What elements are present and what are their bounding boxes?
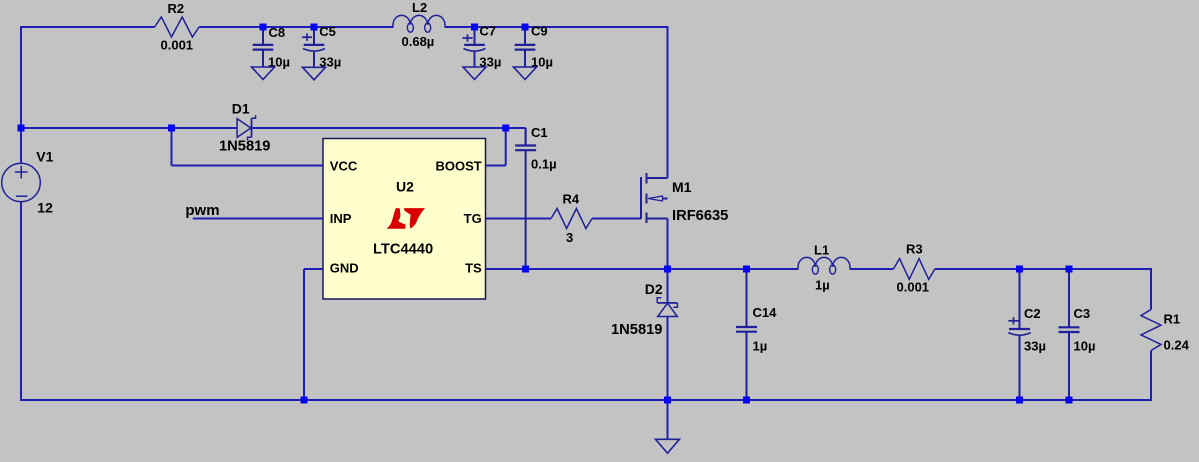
svg-text:0.24: 0.24 — [1164, 338, 1190, 353]
junction left rail x D1 net — [18, 125, 25, 132]
svg-text:1N5819: 1N5819 — [219, 139, 270, 155]
svg-text:C7: C7 — [479, 24, 496, 39]
junction D2 bottom — [664, 397, 671, 404]
capacitor C14 — [736, 269, 757, 400]
svg-text:1µ: 1µ — [753, 338, 768, 353]
voltage source V1 — [2, 163, 41, 202]
svg-text:C9: C9 — [531, 24, 548, 39]
wire pwm net to INP — [193, 218, 324, 220]
junction C14 top — [743, 266, 750, 273]
diode D2 (schottky, vertical, pointing up) — [657, 298, 677, 317]
wire top net: L2 to top-right corner — [445, 26, 668, 28]
wire R1 top lead — [1150, 269, 1152, 310]
junction C14 bottom — [743, 397, 750, 404]
svg-text:L2: L2 — [412, 0, 427, 15]
resistor R4 — [551, 209, 592, 229]
wire bottom net rail — [20, 399, 1152, 401]
junction GND stub bottom — [301, 397, 308, 404]
svg-text:0.001: 0.001 — [161, 38, 194, 53]
svg-text:12: 12 — [37, 200, 53, 216]
C5 plus mark — [302, 34, 312, 41]
svg-text:IRF6635: IRF6635 — [672, 208, 728, 224]
svg-text:D1: D1 — [232, 100, 250, 116]
resistor R1 — [1141, 310, 1161, 351]
wire bottom ground stub — [667, 400, 669, 439]
svg-text:R4: R4 — [563, 192, 580, 207]
LT logo — [386, 208, 425, 229]
svg-text:R2: R2 — [168, 1, 185, 16]
junction BOOST tap — [502, 125, 509, 132]
ground main ground — [656, 439, 680, 453]
svg-text:0.68µ: 0.68µ — [402, 34, 435, 49]
svg-text:V1: V1 — [36, 148, 53, 164]
junction C9 top — [522, 24, 529, 31]
svg-text:R3: R3 — [906, 242, 923, 257]
svg-text:BOOST: BOOST — [435, 158, 481, 173]
wire left vertical: V1 to bottom net — [20, 202, 22, 401]
resistor R3 — [893, 259, 935, 280]
C7 plus mark — [462, 34, 472, 41]
svg-text:pwm: pwm — [185, 202, 219, 219]
svg-text:C8: C8 — [269, 25, 286, 40]
wire VCC stub vertical — [171, 128, 173, 166]
wire D2 bottom lead — [667, 317, 669, 401]
inductor L1 — [798, 257, 850, 269]
capacitor C3 — [1059, 269, 1080, 400]
capacitor C7 — [464, 27, 486, 67]
capacitor C5 — [303, 27, 325, 67]
wire D1 net: left rail to D1 anode — [21, 127, 237, 129]
junction switch node TS x M1/D2 — [664, 266, 671, 273]
svg-text:LTC4440: LTC4440 — [373, 242, 433, 258]
wire top net: R2 to L2 — [199, 26, 393, 28]
svg-text:10µ: 10µ — [1074, 338, 1096, 353]
wire C7 top lead — [474, 27, 476, 44]
ground C9 ground — [514, 67, 537, 80]
svg-text:C3: C3 — [1074, 306, 1091, 321]
junction C2 top — [1016, 266, 1023, 273]
svg-text:GND: GND — [330, 261, 359, 276]
junction C8 top — [260, 24, 267, 31]
wire D1 net: D1 cathode to C1 corner — [252, 127, 526, 129]
op-amp U2 LTC4440 body — [323, 139, 486, 300]
svg-text:TS: TS — [465, 261, 482, 276]
svg-text:1µ: 1µ — [815, 278, 830, 293]
svg-text:C5: C5 — [319, 24, 336, 39]
svg-text:0.1µ: 0.1µ — [531, 157, 557, 172]
junction C3 top — [1066, 266, 1073, 273]
ground C8 ground — [252, 67, 275, 80]
junction VCC tap — [168, 125, 175, 132]
wire C1 top lead — [525, 128, 527, 145]
wire TS net: R3 to right corner — [935, 268, 1152, 270]
junction TS x C1 — [522, 266, 529, 273]
wire D2 top lead — [667, 269, 669, 303]
ground C7 ground — [463, 67, 486, 80]
diode D1 (schottky, horizontal) — [237, 115, 255, 140]
C2 plus mark — [1008, 317, 1018, 324]
wire TS net: L1 to R3 — [850, 268, 893, 270]
capacitor C1 — [515, 128, 536, 269]
ground C5 ground — [303, 67, 326, 80]
wire C5 top lead — [313, 27, 315, 44]
wire C1 top lead corner — [525, 127, 526, 129]
svg-text:U2: U2 — [396, 178, 414, 194]
wire R1 bottom lead — [1150, 351, 1152, 402]
svg-text:TG: TG — [464, 211, 482, 226]
junction C7 top — [471, 24, 478, 31]
svg-text:INP: INP — [330, 211, 352, 226]
wire BOOST stub vertical — [505, 128, 507, 166]
junction C3 bottom — [1066, 397, 1073, 404]
svg-text:R1: R1 — [1164, 312, 1181, 327]
wire VCC stub horizontal — [172, 165, 324, 167]
svg-text:3: 3 — [566, 230, 573, 245]
svg-text:33µ: 33µ — [1024, 338, 1046, 353]
capacitor C9 — [515, 27, 536, 67]
inductor L2 — [393, 15, 445, 27]
wire BOOST stub horizontal — [485, 165, 506, 167]
svg-text:C2: C2 — [1024, 306, 1041, 321]
wire TS net: U2 to L1 — [485, 268, 798, 270]
wire M1 drain vertical — [667, 26, 669, 178]
wire TG net: R4 to M1 gate — [592, 218, 641, 220]
resistor R2 — [155, 17, 200, 37]
wire GND stub vertical — [303, 269, 305, 401]
wire GND stub horizontal — [304, 268, 324, 270]
wire C8 top lead — [262, 27, 264, 44]
svg-text:C14: C14 — [753, 305, 778, 320]
svg-text:1N5819: 1N5819 — [611, 322, 662, 338]
wire top net: V1+ corner to R2 — [21, 26, 155, 28]
capacitor C2 — [1008, 269, 1030, 400]
capacitor C8 — [253, 27, 274, 67]
svg-text:D2: D2 — [645, 281, 663, 297]
wire left vertical: top corner to V1 — [20, 26, 22, 163]
junction C2 bottom — [1016, 397, 1023, 404]
junction C5 top — [311, 24, 318, 31]
transistor M1 (NMOS) — [641, 173, 668, 223]
wire M1 source vertical — [667, 219, 669, 270]
wire TG net: U2 to R4 — [485, 218, 551, 220]
svg-text:C1: C1 — [531, 125, 548, 140]
svg-text:0.001: 0.001 — [897, 280, 930, 295]
wire C9 top lead — [524, 27, 526, 44]
svg-text:VCC: VCC — [330, 158, 358, 173]
svg-text:M1: M1 — [672, 179, 692, 195]
svg-text:L1: L1 — [814, 243, 829, 258]
